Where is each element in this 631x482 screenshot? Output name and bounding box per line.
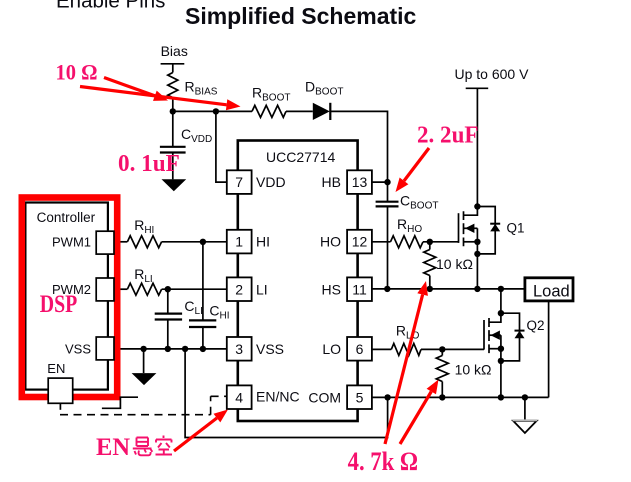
svg-text:0. 1uF: 0. 1uF bbox=[118, 150, 180, 177]
node RHO/10k junction bbox=[427, 239, 433, 245]
node Q2 source stub junction bbox=[498, 346, 504, 352]
svg-text:PWM1: PWM1 bbox=[52, 235, 91, 250]
dashed wire EN to pin 4 EN/NC bbox=[60, 396, 227, 414]
node Q2 diode bottom junction bbox=[498, 358, 504, 364]
svg-text:DSP: DSP bbox=[40, 291, 78, 318]
resistor RHI bbox=[127, 236, 161, 248]
node HS Q2 drain junction bbox=[498, 286, 504, 292]
svg-text:UCC27714: UCC27714 bbox=[266, 149, 335, 165]
svg-text:12: 12 bbox=[352, 234, 368, 250]
Q1 body stub bbox=[464, 227, 478, 229]
arrowhead at RBOOT node bbox=[226, 99, 241, 110]
Q2 body arrow bbox=[491, 331, 500, 340]
wire pin 6 to RLO bbox=[372, 348, 391, 350]
resistor 10k upper bbox=[424, 250, 436, 276]
Q1 drain stub bbox=[464, 207, 478, 216]
wire PWM2 to RLI bbox=[114, 288, 127, 290]
wire to 10k lower bbox=[441, 349, 443, 355]
node VDD pin7 branch bbox=[213, 108, 219, 114]
resistor RBIAS bbox=[168, 73, 178, 112]
svg-text:EN: EN bbox=[47, 361, 65, 376]
wire VSS ground stub bbox=[143, 349, 145, 373]
resistor RHO bbox=[391, 236, 423, 248]
controller pin box PWM1 bbox=[96, 231, 114, 254]
svg-text:LO: LO bbox=[322, 341, 341, 357]
wire DBOOT to HB node bbox=[330, 111, 387, 201]
Q2 drain vertical from HS bbox=[500, 289, 502, 313]
node HS 10k junction bbox=[427, 286, 433, 292]
svg-text:3: 3 bbox=[235, 341, 243, 357]
node LI/CLI junction bbox=[165, 286, 171, 292]
wire LI node down to CLI bbox=[167, 289, 169, 313]
wire CHI bottom to VSS line bbox=[202, 328, 204, 349]
Q1 body diode bbox=[490, 224, 500, 232]
capacitor CHI bbox=[189, 320, 216, 327]
svg-text:13: 13 bbox=[352, 174, 368, 190]
svg-text:10 Ω: 10 Ω bbox=[56, 59, 98, 84]
svg-text:Controller: Controller bbox=[37, 210, 96, 225]
wire pin 12 to RHO bbox=[372, 241, 391, 243]
svg-text:10 kΩ: 10 kΩ bbox=[436, 256, 473, 272]
capacitor CLI bbox=[155, 314, 182, 320]
wire RHO to Q1 gate bbox=[423, 241, 459, 243]
arrow line 10 Ohm to RBIAS bbox=[104, 78, 155, 96]
arrow line 2.2uF to CBOOT bbox=[404, 148, 429, 181]
svg-text:Enable Pins: Enable Pins bbox=[56, 0, 165, 13]
wire CVDD top bbox=[172, 111, 174, 146]
capacitor CVDD bbox=[155, 147, 399, 327]
Q2 source vertical to COM bbox=[500, 335, 502, 397]
wire RHI to pin 1 HI bbox=[162, 241, 227, 243]
node COM 10k junction bbox=[439, 394, 445, 400]
arrow line EN floating to pin 4 bbox=[174, 418, 217, 451]
Q2 body stub bbox=[489, 334, 501, 336]
wire 10k upper to HS bbox=[429, 276, 431, 289]
wire ground stub right bbox=[524, 397, 526, 420]
node VSS CLI junction bbox=[165, 346, 171, 352]
wire to pin 7 VDD bbox=[216, 111, 227, 182]
svg-text:Bias: Bias bbox=[161, 43, 188, 59]
ground (filled) under CVDD bbox=[162, 179, 187, 191]
wire HS line bbox=[372, 288, 525, 290]
wire HI node down to CHI bbox=[202, 242, 204, 320]
node HI/CHI junction bbox=[200, 239, 206, 245]
Q2 body diode bbox=[515, 331, 525, 339]
pin 13 box bbox=[347, 170, 372, 194]
svg-text:Q2: Q2 bbox=[527, 318, 545, 333]
annotation CJK glyph XUAN (hand-drawn) bbox=[133, 438, 153, 456]
svg-text:LI: LI bbox=[256, 281, 268, 297]
wire PWM1 to RHI bbox=[114, 241, 127, 243]
arrowhead at pin 4 EN/NC bbox=[214, 410, 229, 423]
pin 1 box bbox=[227, 230, 252, 254]
svg-text:7: 7 bbox=[235, 174, 243, 190]
svg-text:Simplified Schematic: Simplified Schematic bbox=[185, 3, 417, 29]
resistor RLO bbox=[391, 343, 421, 355]
svg-text:4: 4 bbox=[235, 389, 243, 405]
node COM return junction bbox=[384, 394, 390, 400]
resistor RLI bbox=[127, 283, 161, 295]
node Q2 drain junction bbox=[498, 310, 504, 316]
pin 11 box bbox=[347, 277, 372, 301]
Q2 gate bar bbox=[483, 320, 485, 350]
Q1 body diode branch bbox=[477, 207, 495, 254]
arrowhead at CBOOT bbox=[396, 178, 409, 193]
svg-text:HS: HS bbox=[322, 281, 341, 297]
svg-text:2. 2uF: 2. 2uF bbox=[417, 121, 479, 148]
Q1 gate bar bbox=[458, 213, 460, 243]
Q2 drain stub bbox=[489, 313, 501, 322]
wire HV rail to Q1 drain bbox=[476, 88, 478, 206]
Q1 body arrow bbox=[465, 224, 474, 233]
node VSS CHI junction bbox=[200, 346, 206, 352]
wire 10k lower to COM bbox=[441, 382, 443, 398]
red annotation arrows bbox=[80, 78, 431, 452]
node HS Q1 source junction bbox=[474, 286, 480, 292]
Q1 source vertical to HS bbox=[476, 228, 478, 289]
pin 7 box bbox=[227, 170, 252, 194]
controller box bbox=[25, 203, 108, 390]
svg-text:VDD: VDD bbox=[256, 174, 286, 190]
svg-text:EN: EN bbox=[96, 434, 130, 461]
node VDD-RBIAS junction bbox=[170, 108, 176, 114]
svg-text:Up to 600 V: Up to 600 V bbox=[455, 66, 530, 82]
svg-text:COM: COM bbox=[308, 389, 341, 405]
node HB junction bbox=[384, 179, 390, 185]
arrowhead at 10k upper bbox=[417, 281, 428, 296]
svg-text:2: 2 bbox=[235, 281, 243, 297]
pin 6 box bbox=[347, 337, 372, 361]
node COM ground junction bbox=[522, 394, 528, 400]
wire RLI to pin 2 LI bbox=[162, 288, 227, 290]
wire COM line bbox=[372, 396, 549, 398]
svg-text:EN/NC: EN/NC bbox=[256, 388, 300, 404]
svg-text:5: 5 bbox=[356, 389, 364, 405]
Q2 channel bar segments bbox=[488, 318, 490, 353]
Q1 channel bar segments bbox=[463, 211, 465, 246]
arrowhead at 10k lower bbox=[427, 380, 439, 395]
svg-text:HI: HI bbox=[256, 234, 270, 250]
arrowhead at RBIAS bbox=[153, 91, 168, 101]
controller pin box VSS bbox=[96, 337, 114, 360]
node VSS ground junction bbox=[140, 346, 146, 352]
node COM Q2 source junction bbox=[498, 394, 504, 400]
wire EN jog fragment bbox=[102, 397, 138, 408]
wire VSS-COM return bbox=[185, 349, 388, 438]
wire VSS line bbox=[114, 348, 227, 350]
node RLO gate junction bbox=[439, 346, 445, 352]
capacitor CBOOT bbox=[376, 202, 399, 207]
ground (open) bottom right bbox=[513, 421, 537, 433]
pin 5 box bbox=[347, 385, 372, 409]
wire CVDD bottom to ground bbox=[172, 153, 174, 180]
diode DBOOT bbox=[313, 103, 330, 120]
wire CBOOT bottom to HS line bbox=[387, 207, 389, 289]
ground (filled) under VSS line bbox=[132, 373, 157, 385]
Q2 source stub bbox=[489, 348, 501, 350]
svg-text:VSS: VSS bbox=[256, 341, 284, 357]
wire node VDD rail bbox=[173, 110, 252, 112]
node Q1 source stub junction bbox=[474, 239, 480, 245]
annotation CJK glyph KONG (hand-drawn) bbox=[156, 436, 173, 455]
svg-text:6: 6 bbox=[356, 341, 364, 357]
svg-text:Load: Load bbox=[533, 283, 570, 301]
node Q1 diode bottom junction bbox=[474, 251, 480, 257]
svg-text:HO: HO bbox=[320, 234, 341, 250]
pin 4 box bbox=[227, 385, 252, 409]
wire Load bottom bbox=[548, 301, 550, 398]
Bias terminal bbox=[161, 64, 185, 73]
Q1 source stub bbox=[464, 241, 478, 243]
node HS CBOOT junction bbox=[384, 286, 390, 292]
svg-text:10 kΩ: 10 kΩ bbox=[455, 362, 492, 378]
node VSS return junction bbox=[182, 346, 188, 352]
wire RLO to Q2 gate bbox=[421, 348, 484, 350]
pin 2 box bbox=[227, 277, 252, 301]
svg-text:HB: HB bbox=[322, 174, 341, 190]
red highlight rectangle (DSP controller) bbox=[22, 198, 117, 398]
wire CLI bottom to VSS line bbox=[167, 320, 169, 349]
controller pin box PWM2 bbox=[96, 278, 114, 301]
svg-text:VSS: VSS bbox=[65, 342, 91, 357]
svg-text:Q1: Q1 bbox=[507, 221, 525, 236]
Q2 body diode branch bbox=[501, 313, 520, 361]
arrow line 10 Ohm to RBOOT node bbox=[80, 87, 227, 105]
arrow line 4.7k to 10k lower bbox=[400, 392, 431, 445]
IC U1 UCC27714 body bbox=[238, 141, 358, 422]
wire pin 13 to HB node bbox=[371, 181, 388, 183]
resistor 10k lower bbox=[436, 356, 448, 382]
Load box bbox=[525, 278, 573, 301]
resistor RBOOT bbox=[252, 105, 286, 117]
wire to 10k upper bbox=[429, 242, 431, 250]
wire EN stub below box bbox=[59, 404, 61, 410]
svg-text:4. 7k Ω: 4. 7k Ω bbox=[348, 447, 419, 476]
node Q1 drain junction bbox=[474, 203, 480, 209]
wire RBOOT to DBOOT bbox=[286, 110, 313, 112]
pin 3 box bbox=[227, 337, 252, 361]
terminal Up to 600 V bbox=[466, 87, 489, 89]
transistor Q1 (high-side MOSFET) bbox=[459, 207, 496, 289]
svg-text:11: 11 bbox=[352, 281, 367, 297]
arrow line 4.7k to 10k upper bbox=[385, 295, 423, 444]
pin 12 box bbox=[347, 230, 372, 254]
svg-text:1: 1 bbox=[235, 234, 243, 250]
transistor Q2 (low-side MOSFET) bbox=[484, 289, 520, 398]
controller pin box EN bbox=[48, 378, 72, 403]
